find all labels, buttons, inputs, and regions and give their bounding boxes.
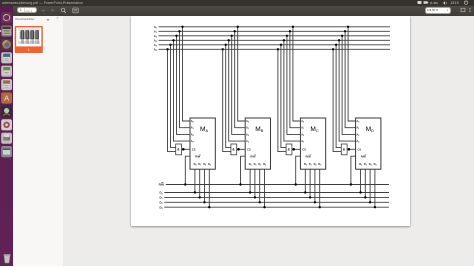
trash icon: [3, 254, 10, 263]
junction D1 bus / MA: [199, 196, 201, 198]
wire A2 bus to MC pin A2: [287, 36, 301, 135]
bus line A5: [154, 47, 390, 52]
launcher icon firefox: [1, 38, 12, 49]
svg-text:CS: CS: [358, 147, 362, 151]
tray volume icon: [444, 1, 447, 5]
tray battery text: [430, 1, 438, 5]
launcher icon amazon: [1, 105, 12, 116]
svg-text:CS: CS: [247, 147, 251, 151]
junction A1/MA: [178, 30, 180, 32]
junction D3 bus / MC: [319, 206, 321, 208]
wire A0 bus to MC pin A0: [293, 27, 301, 121]
junction D2 bus / MA: [203, 201, 205, 203]
node gate GC output bubble: [292, 148, 295, 151]
wire MA D1 to D1 bus: [199, 169, 201, 197]
wire A3 bus to MB pin A3: [229, 40, 246, 141]
MC pin labels A0-A3: [301, 119, 304, 144]
bus line A4: [154, 43, 390, 48]
junction D3 bus / MB: [263, 206, 265, 208]
wire A4 bus to MA select gate input: [171, 45, 176, 148]
junction R/W bus / MD: [350, 183, 352, 185]
junction D0 bus / MC: [304, 191, 306, 193]
memory module MA: [190, 118, 215, 169]
junction A1/MB: [234, 30, 236, 32]
junction A2/MA: [175, 35, 177, 37]
wire A3 bus to MA pin A3: [174, 40, 191, 141]
wire A2 bus to MD pin A2: [342, 36, 356, 135]
wire A4 bus to MD select gate input: [336, 45, 341, 148]
memory module MB: [245, 118, 270, 169]
junction R/W bus / MA: [184, 183, 186, 185]
junction A4/MA: [169, 44, 171, 46]
wire A4 bus to MB select gate input: [226, 45, 231, 148]
junction A3/MC: [283, 39, 285, 41]
AND gate GA (chip select decoder): [176, 144, 182, 155]
wire MC R/W pin to R/W bus: [296, 156, 301, 184]
junction A5/MA: [166, 48, 168, 50]
wire MD D1 to D1 bus: [364, 169, 366, 197]
menu dots icon: [467, 7, 473, 13]
wire MA D0 to D0 bus: [194, 169, 196, 192]
wire MB D1 to D1 bus: [254, 169, 256, 197]
next page button: [50, 8, 55, 13]
bus line A0: [154, 25, 390, 30]
svg-text:A: A: [4, 93, 9, 102]
junction A5/MC: [277, 48, 279, 50]
bus line D0: [160, 191, 389, 196]
launcher icon impress: [1, 79, 12, 90]
wire MC D1 to D1 bus: [309, 169, 311, 197]
bus line R/W: [159, 183, 389, 187]
junction A2/MD: [341, 35, 343, 37]
node gate GA output bubble: [182, 148, 185, 151]
wire A5 bus to MB select gate input: [223, 49, 231, 151]
svg-text:A5: A5: [154, 47, 157, 52]
prev page button: [41, 8, 46, 13]
junction A3/MB: [228, 39, 230, 41]
junction A2/MC: [286, 35, 288, 37]
wire MC D2 to D2 bus: [314, 169, 316, 202]
junction D1 bus / MD: [364, 196, 366, 198]
wire MB D3 to D3 bus: [264, 169, 266, 207]
junction D1 bus / MC: [309, 196, 311, 198]
document page: [131, 16, 411, 226]
wire A1 bus to MC pin A1: [290, 31, 301, 127]
wire MA R/W pin to R/W bus: [185, 156, 190, 184]
svg-text:13:19: 13:19: [451, 1, 459, 5]
wire MD D0 to D0 bus: [360, 169, 362, 192]
wire A0 bus to MA pin A0: [183, 27, 191, 121]
wire gate GD output to MD CS: [347, 148, 356, 150]
MA pin labels A0-A3: [191, 119, 194, 144]
fullscreen icon: [460, 7, 466, 13]
MA pin labels D0-D3: [194, 162, 211, 167]
MC pin label CS: [302, 147, 306, 151]
junction A1/MD: [344, 30, 346, 32]
svg-text:R/W: R/W: [159, 183, 165, 187]
junction D1 bus / MB: [254, 196, 256, 198]
wire MA D3 to D3 bus: [208, 169, 210, 207]
MB pin label R/W: [250, 154, 256, 158]
page number pill: [17, 7, 37, 14]
wire gate GB output to MB CS: [237, 148, 246, 150]
bus line A2: [154, 34, 390, 39]
zoom level pill: [425, 7, 452, 14]
launcher icon extra: [1, 146, 12, 157]
thumbnail selection box: [15, 26, 43, 53]
AND gate GD (chip select decoder): [341, 144, 347, 155]
junction A0/MB: [237, 26, 239, 28]
wire A1 bus to MD pin A1: [345, 31, 356, 127]
junction A0/MD: [347, 26, 349, 28]
MA pin label CS: [192, 147, 196, 151]
MD pin label CS: [358, 147, 362, 151]
memory module MD: [356, 118, 381, 169]
wire A1 bus to MA pin A1: [180, 31, 191, 127]
launcher icon writer: [1, 52, 12, 63]
thumbnail page number: [28, 48, 30, 52]
MD pin labels A0-A3: [356, 119, 359, 144]
junction A2/MB: [231, 35, 233, 37]
junction A1/MC: [289, 30, 291, 32]
tray keyboard icon: [418, 1, 422, 4]
bus line D2: [160, 200, 389, 205]
MA pin label R/W: [195, 154, 201, 158]
wire A2 bus to MA pin A2: [177, 36, 191, 135]
junction D0 bus / MD: [359, 191, 361, 193]
junction R/W bus / MB: [239, 183, 241, 185]
page thumbnail mini schematic: [18, 29, 40, 44]
wire MB R/W pin to R/W bus: [241, 156, 246, 184]
bus line A3: [154, 38, 390, 43]
top menu bar: [0, 0, 474, 6]
MB pin labels D0-D3: [249, 162, 266, 167]
svg-text:(1:38): (1:38): [430, 1, 438, 5]
MD pin labels D0-D3: [359, 162, 376, 167]
MC pin label R/W: [306, 154, 312, 158]
junction D0 bus / MA: [194, 191, 196, 193]
wire MD D3 to D3 bus: [374, 169, 376, 207]
junction A4/MD: [335, 44, 337, 46]
MC pin labels D0-D3: [304, 162, 321, 167]
junction D2 bus / MC: [314, 201, 316, 203]
wire A4 bus to MC select gate input: [281, 45, 286, 148]
junction D2 bus / MD: [369, 201, 371, 203]
junction A0/MA: [181, 26, 183, 28]
svg-text:CS: CS: [192, 147, 196, 151]
svg-text:1: 1: [28, 48, 30, 52]
wire gate GA output to MA CS: [182, 148, 191, 150]
side pane / menu icon: [72, 7, 79, 14]
wire A2 bus to MB pin A2: [232, 36, 246, 135]
wire A3 bus to MC pin A3: [284, 40, 301, 141]
junction A3/MA: [172, 39, 174, 41]
launcher icon printer: [1, 132, 12, 143]
tray battery icon: [424, 1, 429, 4]
junction D2 bus / MB: [259, 201, 261, 203]
tray power icon: [464, 1, 467, 5]
wire A1 bus to MB pin A1: [235, 31, 246, 127]
svg-text:D3: D3: [160, 205, 163, 210]
selected thumbnail: [0, 0, 70, 60]
junction D3 bus / MA: [208, 206, 210, 208]
node gate GD output bubble: [348, 148, 351, 151]
launcher icon calc: [1, 65, 12, 76]
junction D0 bus / MB: [249, 191, 251, 193]
wire MD D2 to D2 bus: [369, 169, 371, 202]
launcher icon software: [1, 92, 12, 103]
junction A5/MB: [222, 48, 224, 50]
junction A0/MC: [292, 26, 294, 28]
active app indicator: [0, 29, 2, 32]
wire MD R/W pin to R/W bus: [351, 156, 356, 184]
bus line D1: [160, 196, 389, 201]
wire A3 bus to MD pin A3: [339, 40, 356, 141]
junction A3/MD: [338, 39, 340, 41]
bus line D3: [160, 205, 389, 210]
wire MC D0 to D0 bus: [304, 169, 306, 192]
AND gate GB (chip select decoder): [231, 144, 237, 155]
wire MA D2 to D2 bus: [204, 169, 206, 202]
junction R/W bus / MC: [295, 183, 297, 185]
MB pin label CS: [247, 147, 251, 151]
wire A0 bus to MB pin A0: [238, 27, 246, 121]
evince toolbar: [13, 6, 474, 16]
node gate GB output bubble: [237, 148, 240, 151]
bus line A1: [154, 29, 390, 34]
wire A5 bus to MA select gate input: [168, 49, 176, 151]
junction A4/MB: [225, 44, 227, 46]
unity launcher: [0, 6, 13, 267]
wire MC D3 to D3 bus: [319, 169, 321, 207]
MB pin labels A0-A3: [246, 119, 249, 144]
launcher icon settings: [1, 119, 12, 130]
launcher icon ubuntu: [1, 12, 12, 23]
wire MB D2 to D2 bus: [259, 169, 261, 202]
wire A5 bus to MD select gate input: [333, 49, 341, 151]
wire MB D0 to D0 bus: [249, 169, 251, 192]
launcher icon files: [1, 25, 12, 36]
svg-text:CS: CS: [302, 147, 306, 151]
wire gate GC output to MC CS: [292, 148, 301, 150]
thumbnails sidebar: [13, 16, 63, 267]
MD pin label R/W: [361, 154, 367, 158]
wire A0 bus to MD pin A0: [348, 27, 356, 121]
tray clock: [451, 1, 459, 5]
sidebar header: [15, 17, 35, 21]
AND gate GC (chip select decoder): [286, 144, 292, 155]
search icon: [60, 7, 67, 14]
junction A4/MC: [280, 44, 282, 46]
memory module MC: [300, 118, 325, 169]
wire A5 bus to MC select gate input: [278, 49, 286, 151]
junction A5/MD: [332, 48, 334, 50]
junction D3 bus / MD: [374, 206, 376, 208]
